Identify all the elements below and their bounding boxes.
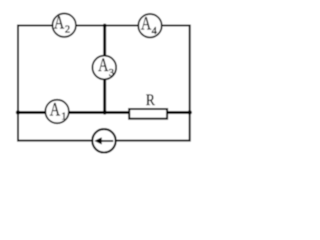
svg-text:2: 2 [65, 25, 70, 36]
wire: middle horizontal branch [18, 111, 190, 114]
wire: vertical middle branch [103, 26, 106, 113]
svg-text:A: A [141, 14, 152, 35]
ammeter A4 [138, 14, 161, 38]
ammeter A3 [92, 55, 116, 79]
node: junction dot left (middle wire to left edge) [16, 110, 20, 114]
node: junction dot centre (vertical branch to middle wire) [103, 110, 107, 114]
svg-text:3: 3 [109, 68, 114, 79]
node: junction dot right (middle wire to right edge) [188, 110, 192, 114]
svg-text:4: 4 [152, 26, 158, 37]
svg-text:1: 1 [61, 112, 66, 123]
svg-text:A: A [50, 100, 61, 121]
ammeter A1 [45, 100, 69, 124]
wire: outer loop (top, left, right, bottom sides) [18, 26, 190, 141]
svg-text:R: R [146, 92, 155, 109]
node: junction dot top (vertical branch to top wire) [103, 24, 107, 28]
current source (circle with left arrow) [92, 129, 115, 152]
svg-text:A: A [54, 12, 65, 33]
resistor R [129, 92, 167, 119]
ammeter A2 [52, 12, 75, 37]
svg-text:A: A [98, 55, 109, 76]
